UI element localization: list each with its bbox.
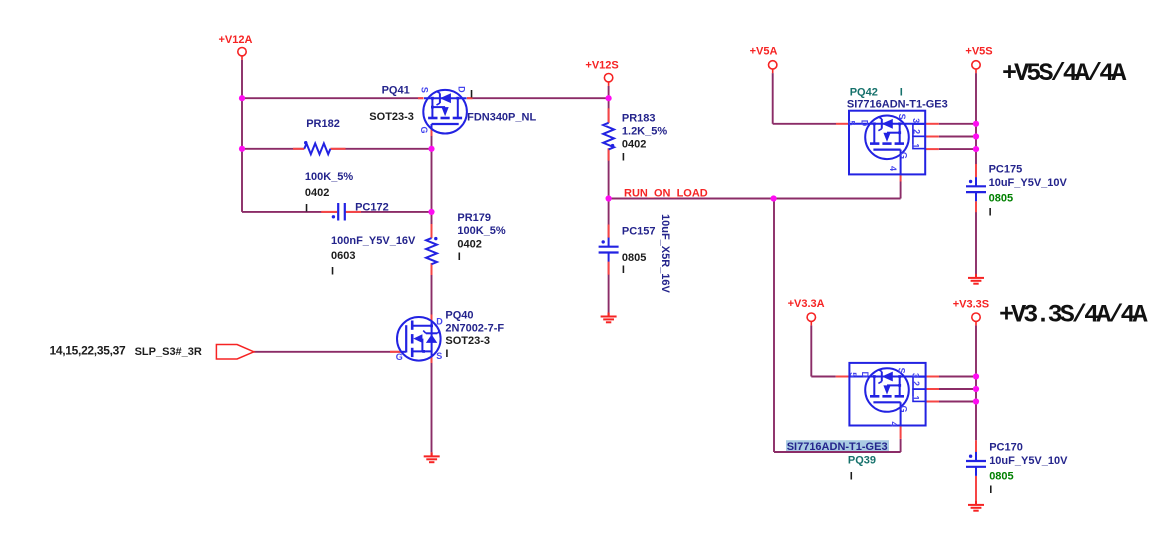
svg-text:100K_5%: 100K_5% — [457, 225, 506, 237]
svg-text:I: I — [989, 484, 992, 496]
svg-text:0402: 0402 — [622, 139, 646, 151]
svg-text:2: 2 — [911, 381, 921, 386]
svg-text:G: G — [898, 405, 908, 412]
svg-text:14,15,22,35,37: 14,15,22,35,37 — [50, 344, 127, 358]
svg-text:I: I — [900, 86, 903, 98]
svg-text:10uF_Y5V_10V: 10uF_Y5V_10V — [989, 455, 1068, 467]
svg-text:S: S — [436, 351, 442, 361]
svg-text:100K_5%: 100K_5% — [305, 171, 354, 183]
svg-text:+V3.3A: +V3.3A — [788, 298, 825, 310]
svg-text:I: I — [850, 471, 853, 483]
svg-text:FDN340P_NL: FDN340P_NL — [467, 112, 536, 124]
svg-text:RUN_ON_LOAD: RUN_ON_LOAD — [624, 188, 708, 200]
svg-text:S: S — [897, 114, 907, 120]
svg-text:I: I — [305, 202, 308, 214]
svg-text:0402: 0402 — [305, 187, 329, 199]
svg-text:PC172: PC172 — [355, 202, 389, 214]
svg-text:4: 4 — [889, 421, 899, 426]
svg-text:0402: 0402 — [457, 239, 481, 251]
svg-text:10uF_X5R_16V: 10uF_X5R_16V — [659, 214, 671, 294]
svg-text:I: I — [622, 264, 625, 276]
svg-text:D: D — [859, 120, 869, 127]
svg-text:PC175: PC175 — [989, 164, 1023, 176]
svg-text:+V5S: +V5S — [965, 46, 992, 58]
svg-text:I: I — [989, 207, 992, 219]
svg-text:0805: 0805 — [989, 470, 1013, 482]
svg-text:D: D — [860, 372, 870, 379]
svg-text:PR183: PR183 — [622, 113, 656, 125]
svg-text:PR182: PR182 — [306, 118, 340, 130]
svg-text:+V3.3S: +V3.3S — [953, 299, 989, 311]
svg-text:SI7716ADN-T1-GE3: SI7716ADN-T1-GE3 — [787, 441, 888, 453]
svg-text:PR179: PR179 — [457, 212, 491, 224]
svg-text:+V3.3S/4A/4A: +V3.3S/4A/4A — [999, 300, 1148, 329]
svg-text:0805: 0805 — [622, 252, 646, 264]
svg-text:I: I — [445, 348, 448, 360]
svg-text:3: 3 — [911, 118, 921, 123]
svg-text:G: G — [898, 152, 908, 159]
svg-text:PQ41: PQ41 — [382, 85, 410, 97]
svg-text:5: 5 — [848, 372, 858, 377]
svg-text:D: D — [436, 317, 443, 327]
svg-text:1: 1 — [911, 143, 921, 148]
svg-text:0603: 0603 — [331, 250, 355, 262]
svg-text:G: G — [396, 352, 403, 362]
svg-text:S: S — [897, 368, 907, 374]
svg-text:5: 5 — [846, 120, 856, 125]
svg-text:SI7716ADN-T1-GE3: SI7716ADN-T1-GE3 — [847, 99, 948, 111]
svg-text:PC157: PC157 — [622, 226, 656, 238]
svg-text:2: 2 — [911, 129, 921, 134]
svg-text:SLP_S3#_3R: SLP_S3#_3R — [135, 346, 202, 358]
svg-text:10uF_Y5V_10V: 10uF_Y5V_10V — [989, 177, 1068, 189]
svg-text:D: D — [456, 86, 466, 93]
svg-text:G: G — [419, 126, 429, 133]
svg-text:S: S — [420, 87, 430, 93]
svg-text:I: I — [458, 251, 461, 263]
svg-text:SOT23-3: SOT23-3 — [369, 111, 414, 123]
svg-text:+V12S: +V12S — [585, 60, 618, 72]
svg-text:PQ40: PQ40 — [445, 310, 473, 322]
svg-text:4: 4 — [888, 166, 898, 171]
svg-text:+V12A: +V12A — [219, 34, 253, 46]
svg-text:+V5S/4A/4A: +V5S/4A/4A — [1002, 59, 1126, 88]
svg-text:1.2K_5%: 1.2K_5% — [622, 125, 667, 137]
svg-text:3: 3 — [911, 373, 921, 378]
svg-text:I: I — [622, 152, 625, 164]
svg-text:0805: 0805 — [989, 192, 1013, 204]
svg-text:SOT23-3: SOT23-3 — [445, 335, 490, 347]
svg-text:PQ39: PQ39 — [848, 455, 876, 467]
svg-text:PQ42: PQ42 — [850, 86, 878, 98]
svg-text:I: I — [331, 266, 334, 278]
svg-text:I: I — [470, 89, 473, 101]
svg-text:PC170: PC170 — [989, 441, 1023, 453]
svg-text:100nF_Y5V_16V: 100nF_Y5V_16V — [331, 235, 416, 247]
svg-text:2N7002-7-F: 2N7002-7-F — [445, 322, 504, 334]
svg-text:1: 1 — [911, 395, 921, 400]
svg-text:+V5A: +V5A — [750, 46, 778, 58]
